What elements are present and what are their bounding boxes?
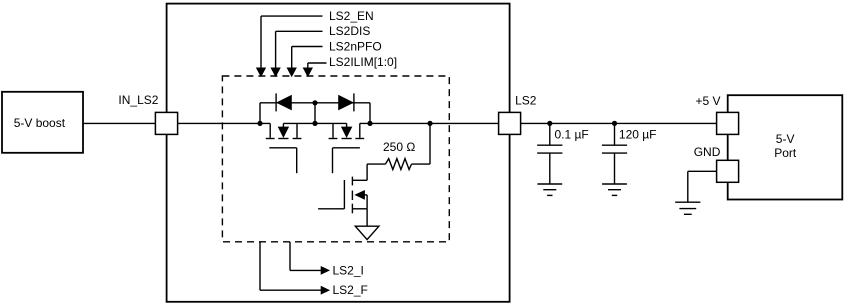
svg-text:IN_LS2: IN_LS2 (118, 93, 158, 107)
svg-text:LS2_F: LS2_F (333, 283, 368, 297)
capacitor C2 120uF (602, 123, 627, 184)
node resistor tap (427, 121, 432, 126)
signal arrow LS2_I (290, 242, 328, 274)
svg-text:LS2_EN: LS2_EN (329, 9, 374, 23)
ground of port (675, 202, 700, 214)
wire node C up to diode rail (369, 103, 371, 124)
LS2 pad (499, 112, 521, 134)
svg-text:250 Ω: 250 Ω (383, 140, 415, 154)
signal arrow LS2_EN (257, 16, 323, 76)
svg-text:5-V: 5-V (776, 132, 795, 146)
svg-text:0.1 µF: 0.1 µF (555, 127, 589, 141)
wire LS2 pad to +5V pad (521, 122, 717, 124)
ground of Q3 (open triangle) (355, 226, 379, 239)
node C (367, 121, 372, 126)
node cap1 tap (547, 121, 552, 126)
wire FET Q1 body/right contact to node B to FET Q2 body (283, 122, 346, 124)
body diode D2 (points right) (339, 93, 354, 111)
wire GND pad to ground (688, 171, 717, 202)
svg-text:LS2DIS: LS2DIS (329, 24, 370, 38)
MOSFET Q1 (266, 123, 302, 173)
wire node B up to diode rail (314, 103, 316, 124)
svg-text:5-V boost: 5-V boost (14, 116, 66, 130)
wire diode rail horizontal (260, 102, 370, 104)
node B (312, 121, 317, 126)
IN_LS2 pad (155, 112, 177, 134)
pad GND (717, 160, 739, 182)
node cap2 tap (612, 121, 617, 126)
signal arrow LS2DIS (272, 31, 323, 75)
svg-text:120 µF: 120 µF (619, 127, 657, 141)
signal arrow LS2_F (260, 242, 328, 294)
wire IN_LS2 pad to node A and FET Q1 left contact stub (178, 122, 271, 124)
svg-text:LS2nPFO: LS2nPFO (329, 39, 382, 53)
svg-text:Port: Port (774, 146, 797, 160)
svg-text:LS2: LS2 (515, 94, 537, 108)
5-V Port block (728, 95, 843, 199)
body diode D1 (points left) (276, 93, 291, 111)
capacitor C1 0.1uF (537, 123, 562, 184)
MOSFET Q3 current limit (318, 164, 367, 226)
pad +5V (717, 112, 739, 134)
svg-text:LS2ILIM[1:0]: LS2ILIM[1:0] (329, 55, 397, 69)
svg-text:LS2_I: LS2_I (333, 263, 364, 277)
svg-text:+5 V: +5 V (696, 94, 721, 108)
MOSFET Q2 (329, 123, 365, 173)
node A (257, 121, 262, 126)
IC boundary box (167, 4, 510, 302)
wire boost to IN_LS2 pad (83, 122, 155, 124)
resistor R 250 ohm (367, 123, 430, 169)
ground of C2 (602, 184, 627, 195)
wire node A up to diode rail (259, 103, 261, 124)
signal arrow LS2ILIM (304, 63, 327, 76)
svg-text:GND: GND (694, 145, 721, 159)
wire FET Q2 right contact through node C and resistor tap to LS2 pad (360, 122, 499, 124)
node diode mid (312, 100, 317, 105)
ground of C1 (537, 184, 562, 195)
dashed current-limit block (222, 76, 449, 242)
signal arrow LS2nPFO (288, 47, 323, 76)
5-V boost block (2, 92, 83, 153)
